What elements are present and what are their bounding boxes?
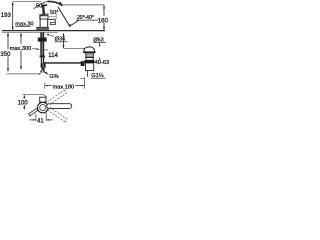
dim 40-63 line [99, 43, 101, 47]
pop-up waste flange [83, 51, 96, 53]
small tick left of shank [36, 48, 39, 50]
dim 41 right extension tick [45, 113, 47, 121]
svg-text:max.300: max.300 [10, 46, 31, 52]
dim 193 extension line [13, 1, 41, 3]
plan spout bar [47, 104, 72, 109]
svg-text:G⅜: G⅜ [49, 74, 58, 80]
shank end tube [42, 68, 45, 71]
svg-text:100: 100 [18, 101, 29, 107]
faucet body top mass [40, 14, 48, 19]
dim 350 arrow down [7, 69, 9, 72]
svg-text:40-63: 40-63 [95, 60, 109, 66]
dim 160 arrow down [103, 27, 105, 30]
dim 350 arrow up [7, 33, 9, 36]
faucet base plate [37, 27, 49, 30]
dim max.300 vertical line [20, 33, 22, 69]
dim 193 arrow down [12, 27, 14, 30]
dim max.180 left tick [44, 83, 46, 89]
dim 41 right arrow [49, 119, 53, 121]
spout outline [48, 19, 55, 24]
dim 350 vertical line [7, 33, 9, 71]
drain fitting lower stub [87, 71, 89, 77]
svg-text:193: 193 [1, 13, 12, 19]
lever upright position [42, 6, 45, 14]
label max.30 underline [15, 26, 30, 28]
label Ø63 underline [93, 42, 106, 44]
small dim tick left [47, 13, 49, 19]
dim 160 vertical line [103, 5, 105, 29]
deck top line [2, 30, 105, 32]
dim max.300 arrow down [20, 67, 22, 70]
dim 193 vertical line [12, 2, 14, 29]
drain fitting flange [84, 60, 94, 63]
drain fitting lower box [86, 63, 94, 71]
label G1 1/4 underline [91, 77, 106, 79]
dim max.180 line left segment with arrow [47, 85, 52, 87]
small dim tick right [55, 13, 57, 19]
drain fitting nub [81, 61, 85, 66]
threaded shank [40, 32, 44, 55]
dashed spout swivel upper [48, 90, 67, 105]
horizontal rod [43, 62, 81, 64]
dim 41 left extension tick [35, 114, 37, 121]
hose end fittings [40, 71, 42, 73]
hose-end extension line [7, 73, 39, 75]
label Ø34 underline [54, 41, 67, 43]
pop-up waste cap dome [84, 47, 95, 52]
max.300 leader line [32, 48, 39, 50]
lever open paddle arc right [48, 1, 63, 5]
lever upright top cap [41, 5, 47, 6]
dim max.180 right tick [84, 77, 86, 88]
dim 100 vertical line [23, 95, 25, 109]
svg-text:max.180: max.180 [53, 84, 74, 90]
svg-text:50°: 50° [36, 3, 44, 9]
plan body inner circle [40, 105, 46, 111]
aerator block [50, 23, 55, 25]
label 20-40 underline [76, 19, 98, 21]
plan body circle [38, 102, 49, 113]
extension L line to waste cap [64, 48, 85, 51]
small dim at spout top line [48, 16, 56, 18]
dashed spout swivel lower [48, 107, 68, 122]
shank lower tube [41, 57, 44, 63]
lower nut [41, 63, 46, 68]
mounting nut [38, 38, 47, 42]
svg-text:114: 114 [48, 53, 58, 59]
aerator angle V left branch [58, 7, 70, 27]
dim 193 arrow up [12, 2, 14, 5]
plan lever rect [40, 97, 46, 104]
faucet body right edge [47, 19, 49, 28]
label G3/8 leader [45, 72, 48, 75]
shank step [40, 55, 45, 57]
drain fitting upper box [86, 58, 93, 61]
aerator angle V vertex arrow [69, 24, 71, 27]
dim max.300 arrow up [20, 33, 22, 36]
dim deck-to-top vertical line right of shank [63, 33, 65, 48]
lever open tip cap [60, 2, 63, 6]
small dash left of right tick [80, 77, 84, 79]
dim 160 extension line [62, 4, 105, 6]
faucet body left edge [39, 16, 41, 28]
dim 41 left arrow [29, 119, 33, 121]
deck bottom line [2, 31, 58, 33]
label Ø34 leader arrow [47, 34, 54, 36]
aerator angle V right branch [70, 20, 79, 26]
dim 160 arrow up [103, 5, 105, 8]
dim max.180 line right segment with arrow [75, 85, 82, 87]
plan extension line top [23, 95, 48, 98]
label 114 leader [45, 49, 49, 51]
plan lever handle diagonal [29, 108, 38, 116]
svg-text:160: 160 [98, 18, 109, 24]
svg-text:41: 41 [37, 118, 44, 124]
lever swing arc left thin [34, 2, 48, 9]
svg-text:50°: 50° [50, 10, 58, 16]
svg-text:350: 350 [0, 52, 11, 58]
pop-up waste body [86, 53, 94, 57]
